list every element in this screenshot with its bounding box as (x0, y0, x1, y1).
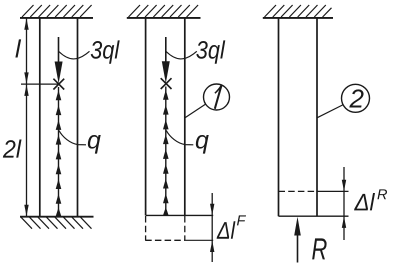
bar 3 dashed undeformed end (279, 190, 318, 192)
floor support (bar 1) (20, 217, 94, 229)
x mark (bar 2) (161, 78, 172, 89)
text delta l F (217, 221, 236, 238)
dim R arrow down (342, 180, 346, 192)
distributed load q (bar 2) (165, 87, 167, 216)
leader to circle 2 (317, 105, 343, 118)
reaction force R arrow (297, 234, 299, 263)
force 3ql arrow (bar 1) (58, 37, 60, 66)
text label R (312, 238, 326, 259)
force 3ql arrow (bar 2) (165, 37, 167, 66)
leader to circle 1 (185, 104, 205, 118)
leader q (bar 2) (166, 131, 193, 145)
leader 3ql (bar 2) (166, 51, 197, 59)
text label l (15, 39, 21, 57)
circle label 2 (342, 84, 370, 112)
text digit 2 (349, 89, 363, 107)
dim arrow up (top, tip at ceiling) (24, 18, 28, 30)
dim F arrow up (210, 241, 214, 253)
dim arrow up (below force level) (24, 84, 28, 96)
leader 3ql (bar 1) (59, 51, 90, 59)
ceiling support (bar 1) (20, 5, 93, 18)
extension line for dim F lower (185, 239, 213, 241)
dimension line delta-l-R (343, 167, 345, 240)
ceiling support (bar 3) (263, 5, 333, 18)
distributed load q (bar 1) (58, 87, 60, 216)
bar 3 (279, 17, 349, 216)
dim R arrow up (342, 216, 346, 228)
ceiling support (bar 2) (127, 5, 201, 18)
text sup R (377, 189, 387, 199)
bar 2 (146, 17, 214, 215)
dim arrow down (tip at floor) (24, 205, 28, 217)
dimension line delta-l-F (211, 193, 213, 262)
text label 2l (3, 139, 22, 157)
dimension line l / 2l (26, 18, 28, 216)
circle label 1 (204, 84, 230, 110)
text label q bar1 (88, 135, 101, 154)
x mark (bar 1) (53, 79, 64, 90)
text sup F (237, 215, 246, 225)
bar 1 (40, 17, 78, 216)
leader q (bar 1) (59, 131, 86, 145)
text label 3ql bar2 (196, 40, 225, 63)
text label 3ql bar1 (91, 40, 120, 63)
bar 2 dashed elongated outline (145, 216, 185, 240)
text label q bar2 (196, 135, 209, 154)
text digit 1 (215, 85, 222, 109)
dim arrow down (tip at force level) (24, 72, 28, 84)
text delta l R (354, 193, 375, 210)
extension line for dim R upper (317, 190, 349, 192)
dim F arrow down (210, 204, 214, 216)
